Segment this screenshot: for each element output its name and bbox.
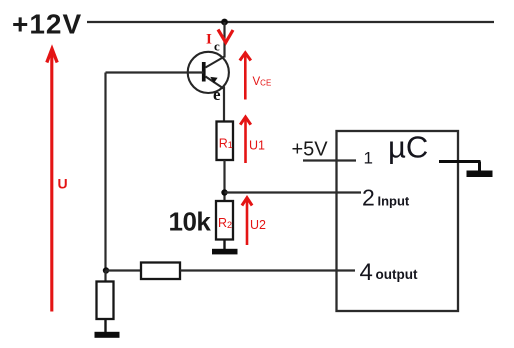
svg-text:output: output — [376, 267, 418, 282]
wire R3 to ground — [104, 319, 106, 333]
svg-text:10k: 10k — [169, 207, 212, 237]
wire R4 to uC pin 4 — [180, 269, 355, 271]
wire emitter to R1 — [223, 87, 225, 123]
wire node to R3 — [104, 271, 106, 283]
wire R2 to ground — [223, 240, 225, 251]
voltage arrow Vce — [240, 53, 271, 100]
wire node to uC pin 2 — [225, 191, 362, 193]
resistor R3 (vertical lower) — [97, 282, 114, 320]
svg-text:e: e — [213, 85, 221, 104]
svg-text:1: 1 — [364, 149, 373, 168]
svg-text:U1: U1 — [249, 139, 265, 153]
resistor R1 — [217, 122, 234, 161]
transistor Q1 (PNP) — [188, 52, 229, 93]
svg-text:4: 4 — [360, 259, 373, 286]
wire +5V to pin 1 — [303, 159, 356, 161]
ground below R2 — [212, 249, 238, 255]
ground below R3 — [95, 332, 120, 338]
svg-text:c: c — [214, 39, 220, 54]
svg-text:I: I — [206, 32, 212, 48]
svg-text:2: 2 — [362, 185, 375, 211]
ground at µC right side — [439, 162, 493, 178]
svg-text:U: U — [58, 176, 68, 192]
wire base lead to left branch — [106, 71, 204, 73]
svg-text:Input: Input — [378, 194, 410, 209]
voltage arrow U (supply voltage) — [47, 49, 68, 312]
svg-text:+12V: +12V — [12, 9, 82, 40]
IC microcontroller µC box — [337, 131, 459, 311]
wire R1 to R2 — [223, 160, 225, 201]
wire node to R4 — [106, 269, 142, 271]
voltage arrow U1 — [240, 117, 265, 163]
current arrow Ic (red chevron) — [218, 30, 233, 43]
svg-text:µC: µC — [388, 130, 428, 165]
wire collector lead from rail to transistor — [223, 22, 225, 58]
resistor R4 (horizontal) — [141, 263, 180, 280]
voltage arrow U2 — [242, 198, 266, 245]
svg-text:+5V: +5V — [292, 139, 329, 161]
wire +12V top rail — [87, 21, 494, 23]
resistor R2 — [216, 201, 233, 240]
node junction left branch — [103, 267, 109, 273]
svg-text:U2: U2 — [250, 218, 266, 232]
node junction R1/R2 to pin 2 — [221, 189, 227, 195]
wire left branch vertical — [104, 73, 106, 272]
node junction on +12V rail — [221, 19, 228, 26]
svg-text:VCE: VCE — [253, 76, 272, 88]
